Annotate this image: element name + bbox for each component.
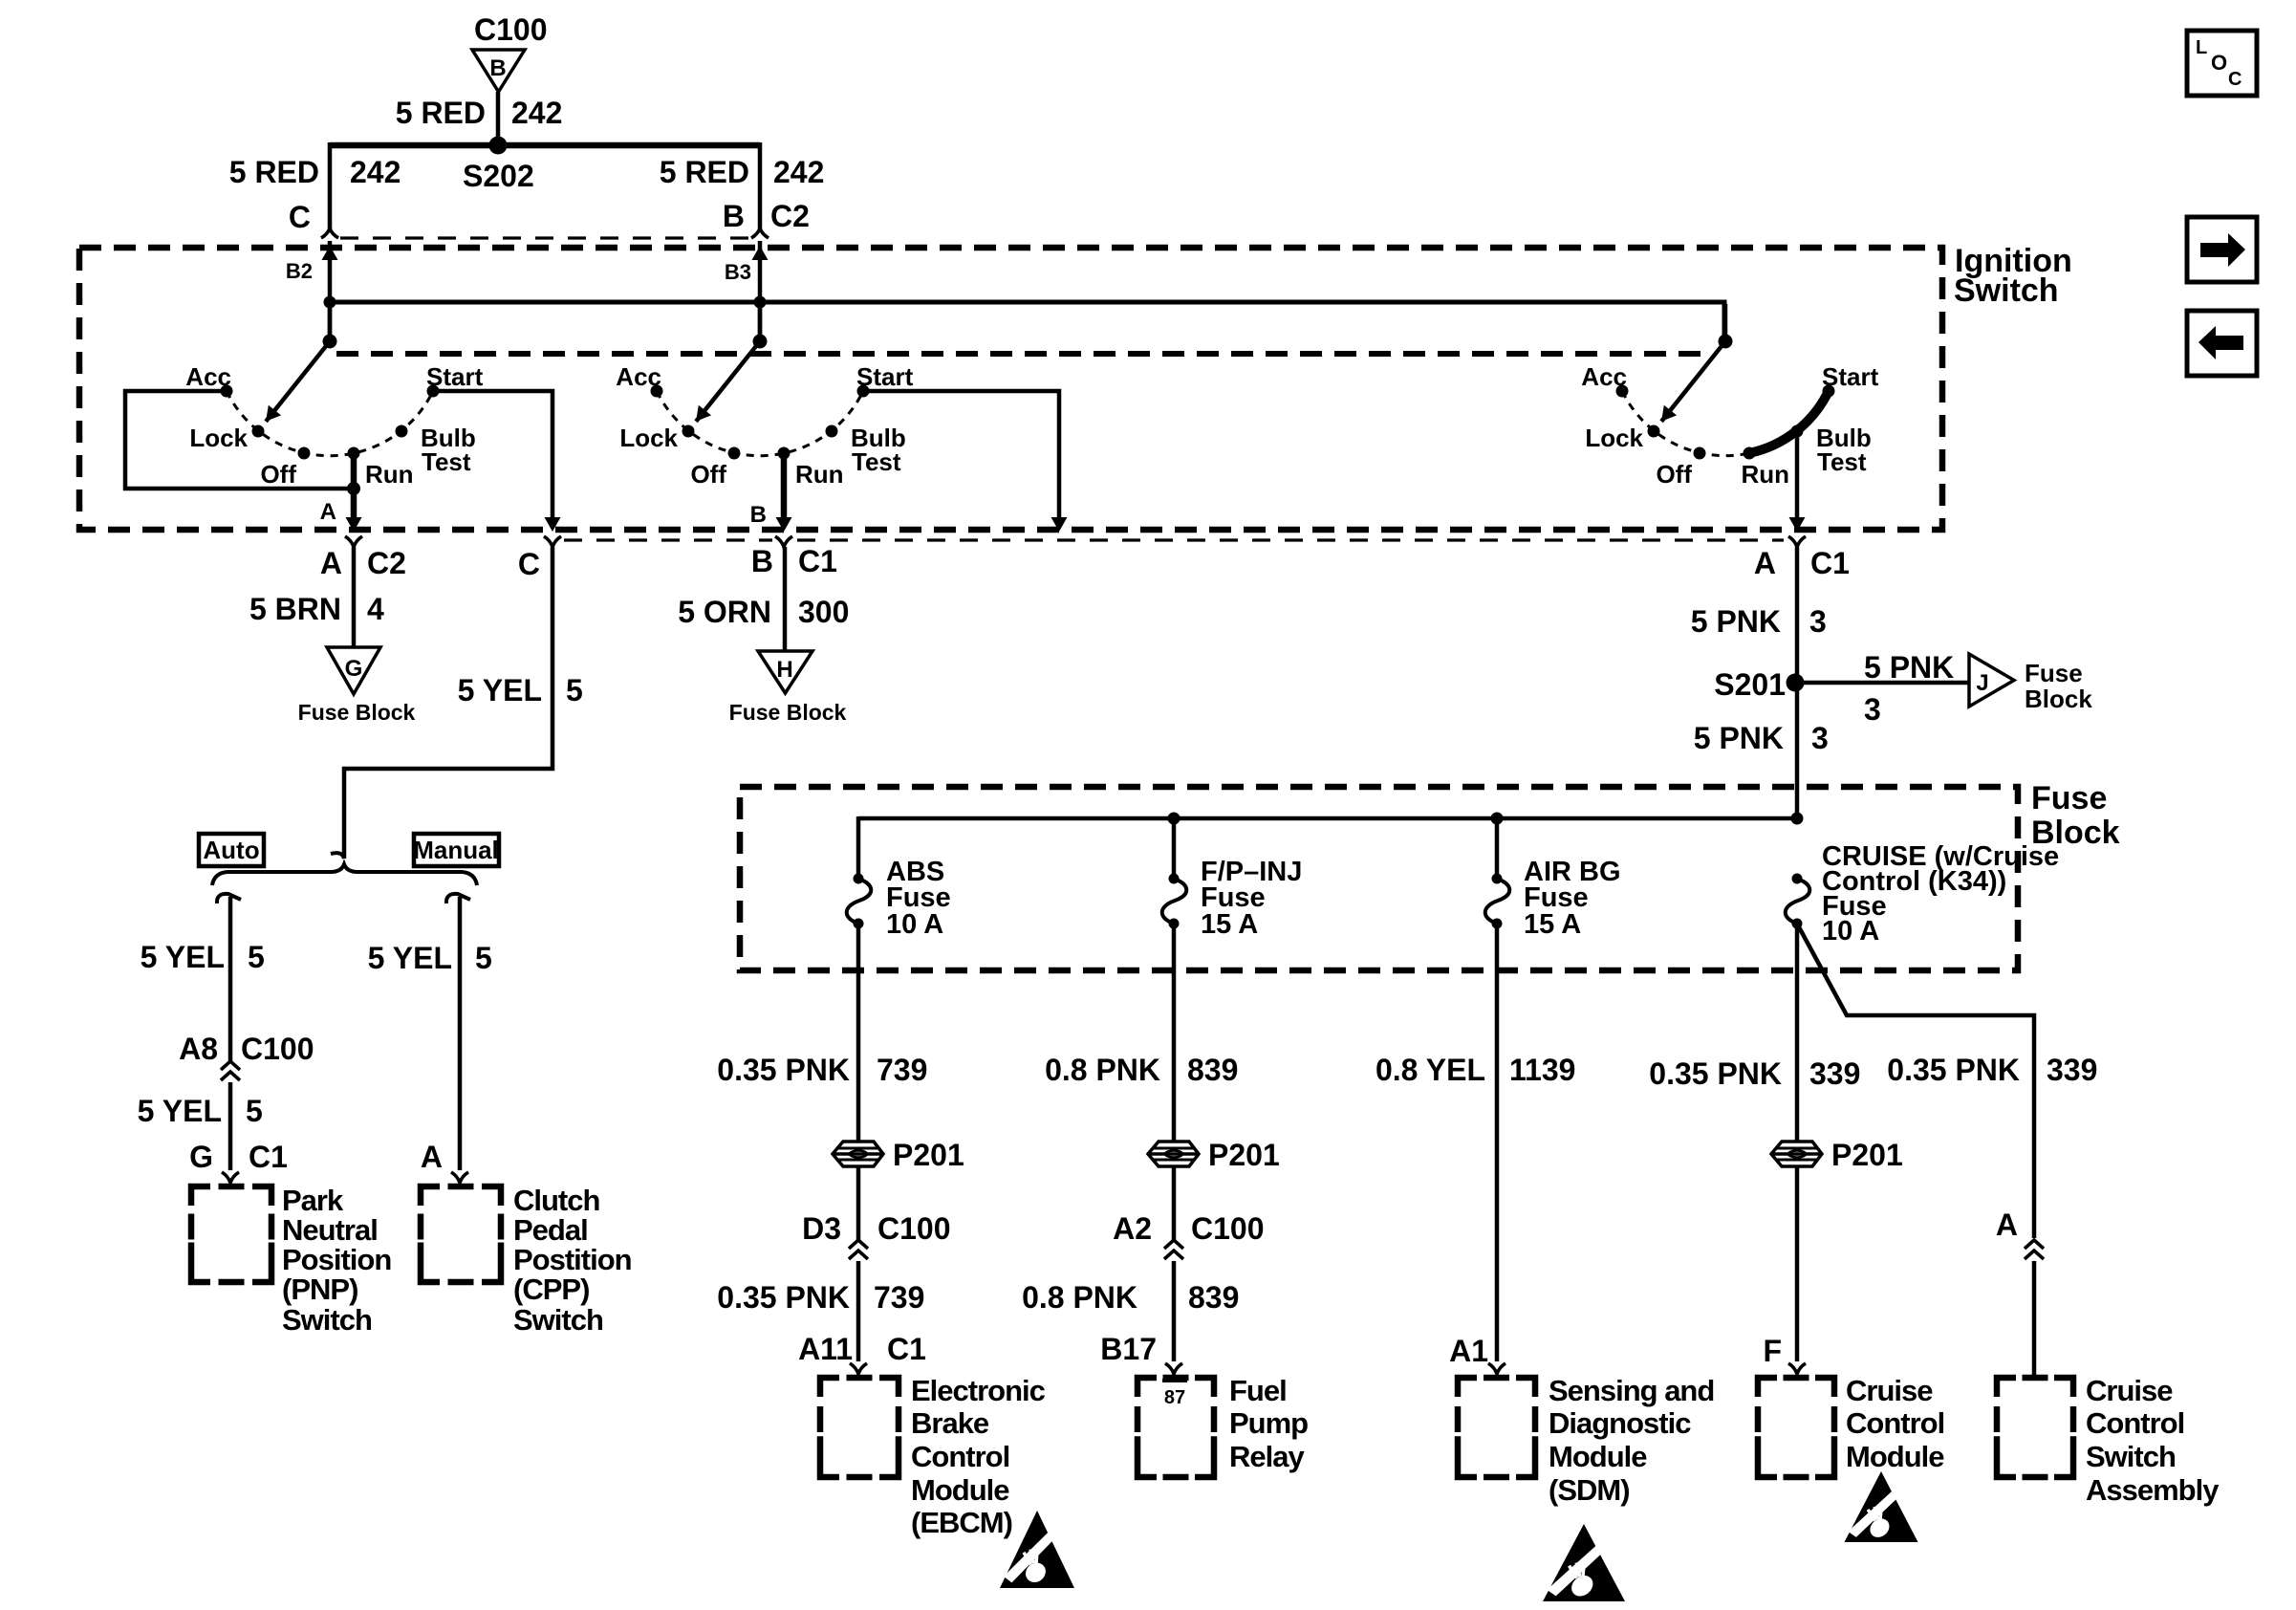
svg-text:C: C — [518, 547, 540, 581]
svg-text:839: 839 — [1187, 1053, 1238, 1087]
svg-text:Fuel: Fuel — [1229, 1374, 1287, 1407]
connector C2 fork right — [751, 228, 769, 238]
svg-text:5 RED: 5 RED — [660, 155, 749, 189]
inner dashed line — [336, 351, 1708, 357]
EBCM dashed box — [820, 1378, 899, 1477]
svg-text:C2: C2 — [367, 546, 406, 580]
svg-text:242: 242 — [350, 155, 401, 189]
svg-text:A8: A8 — [179, 1032, 218, 1066]
svg-text:A2: A2 — [1113, 1211, 1152, 1246]
svg-text:339: 339 — [1809, 1056, 1860, 1091]
wire rotor feed SW3 — [1723, 304, 1728, 341]
svg-text:B: B — [489, 55, 506, 81]
node bus-B2 — [324, 296, 336, 309]
contact arc dashed SW1 — [227, 391, 433, 456]
node bus FP — [1168, 813, 1180, 825]
svg-text:P201: P201 — [1831, 1138, 1903, 1172]
wire Start output SW1 — [433, 391, 552, 526]
wire S201 branch to J — [1795, 681, 1968, 685]
svg-text:Control: Control — [2086, 1406, 2184, 1440]
svg-text:B3: B3 — [725, 260, 751, 284]
fuse AIR BG 15A — [1492, 874, 1503, 884]
wire Run stem SW1 — [351, 453, 357, 525]
svg-text:5: 5 — [248, 940, 265, 974]
svg-text:J: J — [1976, 670, 1988, 696]
svg-text:87: 87 — [1164, 1387, 1185, 1408]
wire Start output SW2 — [863, 391, 1059, 526]
contact Lock SW1 — [252, 425, 265, 438]
svg-text:Off: Off — [260, 460, 296, 489]
contact Off SW2 — [728, 447, 741, 460]
triangle G fuse block — [327, 647, 380, 694]
label box Auto — [199, 834, 264, 866]
contact Off SW3 — [1694, 447, 1706, 460]
svg-text:5 RED: 5 RED — [396, 96, 486, 130]
splice S202 junction dot — [489, 137, 508, 155]
svg-text:Lock: Lock — [619, 424, 678, 452]
svg-text:B: B — [750, 502, 767, 528]
svg-text:Electronic: Electronic — [911, 1374, 1046, 1407]
svg-text:Off: Off — [690, 460, 726, 489]
connector C100 inline auto — [221, 1061, 240, 1070]
wire 0.35 PNK 739 lower — [856, 1261, 861, 1361]
svg-text:C: C — [289, 200, 311, 234]
svg-text:739: 739 — [874, 1280, 924, 1315]
svg-text:739: 739 — [877, 1053, 927, 1087]
svg-text:Auto: Auto — [203, 836, 259, 864]
splice S202 bus wire — [330, 142, 760, 149]
svg-text:B: B — [751, 544, 773, 578]
wire 0.35 PNK 339 branch — [1797, 924, 2034, 1238]
svg-text:A: A — [320, 546, 342, 580]
svg-text:339: 339 — [2047, 1053, 2097, 1087]
svg-text:3: 3 — [1864, 692, 1881, 727]
svg-text:A1: A1 — [1449, 1334, 1488, 1368]
svg-text:Start: Start — [856, 362, 914, 391]
connector C100 inline ABS — [849, 1240, 868, 1249]
svg-text:Switch: Switch — [1954, 272, 2059, 309]
arrow Start output SW2 — [1051, 517, 1068, 532]
connector C1 fork output A right — [1788, 536, 1806, 547]
svg-text:A: A — [320, 499, 336, 525]
svg-text:5: 5 — [566, 673, 583, 707]
contact Start SW1 — [427, 385, 440, 398]
grommet P201 cruise — [1771, 1142, 1822, 1166]
svg-text:3: 3 — [1809, 604, 1827, 639]
wire end hook — [331, 853, 344, 859]
svg-text:Start: Start — [1822, 362, 1879, 391]
fuse bus wire — [858, 816, 1797, 821]
svg-text:0.8 YEL: 0.8 YEL — [1375, 1053, 1485, 1087]
arrow output A — [346, 517, 362, 532]
triangle H fuse block — [758, 651, 812, 693]
legend right arrow box — [2187, 217, 2257, 282]
svg-text:C1: C1 — [887, 1332, 926, 1366]
node bus main feed — [1791, 813, 1804, 825]
svg-text:Pump: Pump — [1229, 1406, 1308, 1440]
svg-text:(PNP): (PNP) — [282, 1273, 357, 1306]
svg-text:5 PNK: 5 PNK — [1694, 721, 1784, 755]
svg-text:C1: C1 — [1810, 546, 1850, 580]
wire 0.8 PNK 839 lower — [1172, 1261, 1177, 1361]
svg-text:D3: D3 — [802, 1211, 841, 1246]
contact Acc SW3 — [1616, 385, 1629, 398]
connector C1 dashed line — [564, 538, 772, 541]
rotor arm arrow SW2 — [696, 341, 760, 422]
contact Run SW2 — [778, 447, 791, 460]
wire Auto branch hook — [217, 894, 241, 903]
svg-text:A11: A11 — [798, 1332, 853, 1366]
wire F to cruise module — [1795, 1166, 1800, 1361]
svg-text:Control: Control — [911, 1440, 1009, 1473]
wire Manual branch hook — [446, 894, 470, 903]
PNP switch dashed box — [191, 1186, 271, 1282]
svg-text:Fuse Block: Fuse Block — [298, 700, 416, 725]
contact Acc SW1 — [221, 385, 233, 398]
svg-text:P201: P201 — [1208, 1138, 1280, 1172]
CPP switch dashed box — [421, 1186, 501, 1282]
svg-text:Run: Run — [795, 460, 844, 489]
svg-text:Acc: Acc — [1581, 362, 1627, 391]
node rotor pivot SW2 — [753, 335, 768, 349]
wire B2 feed — [328, 241, 333, 341]
wire Acc loop SW1 — [125, 391, 354, 489]
connector fork cruise module — [1788, 1363, 1806, 1374]
svg-text:Cruise: Cruise — [2086, 1374, 2173, 1407]
connector C2 fork left — [321, 228, 338, 238]
svg-text:Acc: Acc — [616, 362, 661, 391]
svg-text:5 YEL: 5 YEL — [368, 941, 452, 975]
svg-text:Switch: Switch — [282, 1303, 372, 1337]
svg-text:A: A — [1754, 546, 1776, 580]
svg-text:5 RED: 5 RED — [229, 155, 319, 189]
wire Run stem SW3 — [1795, 433, 1800, 525]
relay pin 87 — [1162, 1379, 1187, 1382]
wire rotor feed SW1 — [328, 304, 333, 341]
wire 5 RED 242 from C100 to S202 — [496, 92, 501, 145]
contact Bulb Test SW3 — [1791, 425, 1804, 438]
wire 0.35 PNK 739 upper — [856, 924, 861, 1142]
svg-text:5: 5 — [475, 941, 492, 975]
grommet P201 FP — [1148, 1142, 1199, 1166]
wire 0.8 YEL 1139 — [1495, 924, 1500, 1361]
wire 5 YEL 5 to PNP — [228, 1082, 233, 1170]
contact Off SW1 — [298, 447, 311, 460]
svg-text:(EBCM): (EBCM) — [911, 1506, 1012, 1539]
splice S201 dot — [1787, 674, 1805, 692]
legend left arrow box — [2187, 311, 2257, 376]
svg-text:(SDM): (SDM) — [1549, 1473, 1630, 1507]
connector fork PNP — [222, 1172, 239, 1183]
connector inline switch assembly — [2025, 1240, 2044, 1249]
cruise control module dashed box — [1758, 1378, 1834, 1477]
arrow output B — [776, 517, 792, 532]
fuse block dashed box — [740, 787, 2018, 970]
contact Lock SW2 — [682, 425, 695, 438]
svg-text:P201: P201 — [893, 1138, 964, 1172]
wire 0.8 PNK 839 upper — [1172, 924, 1177, 1142]
rotor arm arrow SW3 — [1661, 341, 1725, 422]
svg-text:0.8 PNK: 0.8 PNK — [1022, 1280, 1137, 1315]
wire 0.35 PNK 339 main — [1795, 924, 1800, 1142]
arrow Start output SW1 — [545, 517, 561, 532]
svg-text:5: 5 — [246, 1094, 263, 1128]
svg-text:S202: S202 — [463, 159, 534, 193]
node rotor pivot SW3 — [1719, 335, 1733, 349]
connector fork relay — [1165, 1363, 1182, 1374]
contact Bulb Test SW1 — [396, 425, 408, 438]
svg-text:0.35 PNK: 0.35 PNK — [1887, 1053, 2020, 1087]
svg-text:L: L — [2196, 37, 2207, 58]
contact Bulb Test SW2 — [826, 425, 838, 438]
node bus AIRBG — [1491, 813, 1504, 825]
wire 5 ORN 300 — [783, 547, 788, 651]
svg-text:Sensing and: Sensing and — [1549, 1374, 1714, 1407]
svg-text:10 A: 10 A — [1822, 916, 1879, 946]
svg-text:Module: Module — [911, 1473, 1009, 1507]
contact Lock SW3 — [1648, 425, 1660, 438]
contact arc dashed SW2 — [657, 391, 863, 456]
wire 5 YEL 5 — [344, 547, 552, 859]
svg-text:Clutch: Clutch — [513, 1184, 600, 1217]
svg-text:5 PNK: 5 PNK — [1691, 604, 1781, 639]
svg-text:Test: Test — [1817, 447, 1867, 476]
svg-text:B: B — [723, 199, 745, 233]
svg-text:A: A — [421, 1140, 443, 1174]
svg-text:Position: Position — [282, 1243, 391, 1276]
wire to C100 FP — [1172, 1166, 1177, 1240]
svg-text:H: H — [776, 657, 792, 683]
fuse F/P-INJ 15A — [1495, 818, 1500, 879]
connector C1 fork output B — [775, 536, 792, 547]
svg-text:F: F — [1763, 1334, 1782, 1368]
svg-text:Module: Module — [1846, 1440, 1944, 1473]
svg-text:15 A: 15 A — [1201, 909, 1258, 940]
ignition bus wire — [330, 302, 1724, 341]
legend LOC box — [2187, 31, 2257, 96]
svg-text:B2: B2 — [286, 259, 313, 283]
svg-text:C1: C1 — [249, 1140, 288, 1174]
connector fork CPP — [451, 1172, 468, 1183]
fuse ABS 10A — [1172, 818, 1177, 879]
contact Start SW2 — [857, 385, 870, 398]
wire to switch assembly box — [2032, 1261, 2037, 1378]
svg-text:Switch: Switch — [513, 1303, 603, 1337]
arrow B2 up — [322, 246, 338, 260]
triangle J fuse block — [1969, 654, 2014, 707]
svg-text:S201: S201 — [1714, 667, 1786, 702]
contact Run SW1 — [348, 447, 360, 460]
node Run loop junction SW1 — [347, 482, 360, 495]
svg-text:10 A: 10 A — [886, 909, 943, 940]
svg-text:1139: 1139 — [1509, 1053, 1575, 1087]
svg-text:A: A — [1996, 1207, 2018, 1242]
svg-text:Control: Control — [1846, 1406, 1944, 1440]
svg-text:Cruise: Cruise — [1846, 1374, 1933, 1407]
svg-text:0.35 PNK: 0.35 PNK — [1649, 1056, 1782, 1091]
bulb-test arc thick SW3 — [1749, 391, 1829, 453]
svg-text:G: G — [189, 1140, 213, 1174]
rotor arm arrow SW1 — [266, 341, 330, 422]
connector fork EBCM — [850, 1363, 867, 1374]
connector fork output C — [544, 536, 561, 547]
svg-text:5 YEL: 5 YEL — [458, 673, 542, 707]
svg-text:242: 242 — [773, 155, 824, 189]
ESD triangle EBCM — [1000, 1511, 1074, 1588]
svg-text:Assembly: Assembly — [2086, 1473, 2220, 1507]
svg-text:G: G — [345, 656, 363, 682]
svg-text:Fuse: Fuse — [2031, 780, 2107, 816]
contact Acc SW2 — [651, 385, 663, 398]
svg-text:Fuse Block: Fuse Block — [729, 700, 847, 725]
svg-text:0.35 PNK: 0.35 PNK — [717, 1053, 850, 1087]
svg-text:C100: C100 — [241, 1032, 314, 1066]
ESD triangle SDM — [1543, 1524, 1625, 1601]
svg-text:Brake: Brake — [911, 1406, 989, 1440]
svg-text:Run: Run — [365, 460, 414, 489]
svg-text:C100: C100 — [1191, 1211, 1265, 1246]
option brace — [212, 864, 477, 885]
arrow B3 up — [752, 246, 769, 260]
contact arc dashed SW3 — [1622, 391, 1749, 456]
svg-text:Neutral: Neutral — [282, 1213, 378, 1247]
wire rotor feed SW2 — [758, 304, 763, 341]
svg-text:4: 4 — [367, 592, 384, 626]
svg-text:Run: Run — [1741, 460, 1789, 489]
svg-text:C: C — [2228, 69, 2242, 90]
svg-text:Off: Off — [1656, 460, 1692, 489]
svg-text:Fuse: Fuse — [2025, 659, 2083, 687]
connector C2 fork output A — [345, 536, 362, 547]
cruise control switch assembly dashed box — [1997, 1378, 2073, 1477]
svg-text:3: 3 — [1811, 721, 1829, 755]
svg-text:C100: C100 — [877, 1211, 951, 1246]
wire Auto branch — [228, 897, 233, 1061]
wire Manual branch — [458, 897, 463, 1170]
svg-text:Block: Block — [2025, 685, 2092, 713]
contact Start SW3 — [1823, 385, 1835, 398]
node rotor pivot SW1 — [323, 335, 337, 349]
svg-text:Start: Start — [426, 362, 484, 391]
svg-text:O: O — [2211, 51, 2227, 75]
svg-text:300: 300 — [798, 595, 849, 629]
contact Run SW3 — [1744, 447, 1756, 460]
wire to C100 ABS — [856, 1166, 861, 1240]
svg-text:Postition: Postition — [513, 1243, 632, 1276]
svg-text:15 A: 15 A — [1524, 909, 1581, 940]
label box Manual — [414, 834, 499, 866]
svg-text:5 YEL: 5 YEL — [141, 940, 225, 974]
svg-text:Acc: Acc — [185, 362, 231, 391]
svg-text:C2: C2 — [770, 199, 810, 233]
ESD triangle cruise module — [1845, 1471, 1918, 1542]
svg-text:Diagnostic: Diagnostic — [1549, 1406, 1691, 1440]
svg-text:5 BRN: 5 BRN — [249, 592, 341, 626]
connector C2 dashed line — [340, 236, 751, 239]
wire 5 PNK 3 upper — [1795, 547, 1800, 820]
SDM dashed box — [1458, 1378, 1535, 1477]
fuel pump relay dashed box — [1137, 1378, 1214, 1477]
wire Run stem SW2 — [781, 453, 788, 525]
svg-text:5 PNK: 5 PNK — [1864, 650, 1954, 685]
connector C100 inline FP — [1164, 1240, 1183, 1249]
svg-text:Pedal: Pedal — [513, 1213, 588, 1247]
svg-text:Park: Park — [282, 1184, 344, 1217]
svg-text:0.35 PNK: 0.35 PNK — [717, 1280, 850, 1315]
svg-text:Relay: Relay — [1229, 1440, 1305, 1473]
svg-text:0.8 PNK: 0.8 PNK — [1045, 1053, 1160, 1087]
svg-text:Test: Test — [422, 447, 471, 476]
arrow output A SW3 — [1789, 517, 1806, 532]
svg-text:C100: C100 — [474, 12, 548, 47]
svg-text:5 YEL: 5 YEL — [138, 1094, 222, 1128]
svg-text:Lock: Lock — [189, 424, 248, 452]
svg-text:5 ORN: 5 ORN — [678, 595, 771, 629]
connector fork SDM — [1488, 1363, 1505, 1374]
fuse CRUISE 10A — [1792, 874, 1803, 884]
svg-text:Switch: Switch — [2086, 1440, 2176, 1473]
svg-text:Lock: Lock — [1585, 424, 1643, 452]
svg-text:Module: Module — [1549, 1440, 1647, 1473]
svg-text:Test: Test — [852, 447, 901, 476]
wire B3 feed — [758, 241, 763, 341]
wire 5 BRN 4 — [352, 547, 357, 647]
node bus-B3 — [754, 296, 767, 309]
svg-text:Manual: Manual — [413, 836, 499, 864]
svg-text:B17: B17 — [1100, 1332, 1157, 1366]
ignition switch dashed box — [79, 248, 1942, 530]
svg-text:(CPP): (CPP) — [513, 1273, 589, 1306]
svg-text:242: 242 — [511, 96, 562, 130]
svg-text:C1: C1 — [798, 544, 837, 578]
grommet P201 ABS — [833, 1142, 883, 1166]
svg-text:839: 839 — [1188, 1280, 1239, 1315]
